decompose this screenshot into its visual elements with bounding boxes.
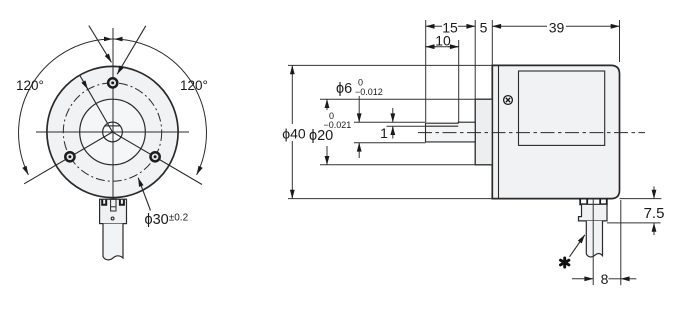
- 7.5 dim: [620, 198, 662, 200]
- ext line boss face 15mm: [474, 20, 476, 99]
- label panel rectangle: [519, 71, 605, 145]
- svg-text:−0.012: −0.012: [355, 87, 383, 97]
- asterisk leader: [570, 235, 585, 257]
- shaft flat line: [426, 125, 459, 127]
- body rectangle: [492, 65, 619, 198]
- horizontal centerline: [36, 131, 189, 133]
- phi30 leader: [138, 178, 150, 211]
- dim 15: [426, 25, 442, 27]
- 120 deg dimension arc left: [19, 39, 113, 175]
- ext line 10mm step: [458, 40, 460, 123]
- dim 39: [492, 25, 547, 27]
- ext line body front face: [491, 20, 493, 65]
- boss (phi20 x 5): [475, 99, 492, 165]
- svg-text:ϕ20: ϕ20: [309, 128, 333, 144]
- dim 1 (flat depth): [387, 125, 426, 127]
- svg-text:ϕ40: ϕ40: [282, 126, 306, 142]
- screw bottom-left: [65, 152, 74, 161]
- front face inner line: [498, 65, 500, 198]
- front cable: [103, 224, 123, 260]
- side cable gland tabs: [580, 199, 587, 205]
- shaft body: [426, 122, 476, 142]
- vertical centerline: [112, 28, 114, 212]
- ext line body rear: [619, 20, 621, 62]
- line B: radial at 120 deg with arrow on bolt circle: [80, 75, 113, 132]
- shaft flat chord: [105, 125, 121, 127]
- dim 10: [426, 46, 459, 48]
- front cable gland block: [100, 199, 127, 223]
- svg-text:10: 10: [435, 32, 451, 48]
- gland right tab: [120, 200, 124, 205]
- radial line to bottom-right screw: [113, 132, 203, 185]
- screw top: [108, 78, 117, 87]
- boss circle (phi20): [80, 99, 146, 165]
- body outer circle (phi40): [47, 66, 178, 197]
- side cable: [586, 221, 602, 257]
- svg-text:1: 1: [380, 125, 388, 141]
- ext line shaft tip: [425, 20, 427, 122]
- svg-text:5: 5: [480, 19, 488, 35]
- radial line to bottom-left screw: [24, 132, 112, 184]
- 8 dim: [620, 200, 622, 285]
- svg-text:7.5: 7.5: [644, 205, 665, 222]
- phi6 dim: [354, 121, 426, 123]
- shaft circle (phi6): [103, 122, 123, 142]
- phi40 dim: [288, 64, 492, 66]
- side gland block: [579, 204, 608, 221]
- bolt circle phi30 (dash-dot): [63, 83, 161, 181]
- orientation mark (circle-x): [504, 96, 513, 105]
- leader arrow A' (top right, points to top screw): [117, 26, 146, 74]
- phi20 dim: [320, 98, 475, 100]
- gland left tab: [102, 200, 106, 205]
- svg-text:39: 39: [549, 19, 565, 35]
- svg-text:ϕ6: ϕ6: [336, 81, 352, 97]
- leader arrow A (top left, points to top screw): [89, 26, 112, 63]
- 120 deg dimension arc right: [114, 39, 207, 175]
- svg-text:0: 0: [358, 78, 363, 88]
- asterisk: [561, 258, 569, 267]
- svg-text:8: 8: [601, 271, 609, 287]
- screw bottom-right: [151, 152, 160, 161]
- gland screw: [111, 217, 114, 220]
- gland center slot: [111, 199, 116, 211]
- cable centerline extension: [592, 199, 594, 285]
- svg-text:120°: 120°: [16, 78, 44, 93]
- svg-text:120°: 120°: [180, 78, 208, 93]
- horizontal centerline (dash-dot): [418, 132, 645, 134]
